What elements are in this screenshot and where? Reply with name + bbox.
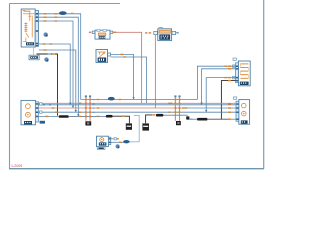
frame bottom border — [9, 168, 264, 170]
relay K1 right stub — [176, 32, 179, 33]
unit U1 bottom label — [26, 42, 34, 45]
pump unit P1 — [97, 136, 109, 146]
fuse box F1 (top middle) — [89, 30, 113, 40]
ground symbol GND2 — [142, 123, 149, 130]
wire W8 from switch — [111, 56, 147, 103]
ground G1 chain — [146, 114, 236, 123]
splice blob on W1 — [59, 11, 67, 15]
wire W3 (pin y=21) — [39, 20, 73, 108]
connector C1 label — [85, 121, 91, 125]
heater resistor unit R1 (right) — [238, 61, 250, 86]
wire W9 red from K1 down — [154, 35, 156, 108]
wire W2 (pin y=17.2) — [39, 17, 79, 117]
symbol circle S2 — [44, 57, 48, 61]
bus B3 with fuse chain to ground1 — [39, 115, 130, 123]
connector C2 label — [176, 121, 181, 125]
wire W4b (second lower pin wire y=50) — [39, 49, 76, 112]
motor unit connector bar — [233, 97, 238, 121]
symbol circle S3 — [116, 144, 120, 148]
unit M1 connector bar — [35, 102, 38, 122]
fuse lozenge F5 — [197, 118, 208, 121]
wire WB heater pin2 — [202, 68, 236, 105]
inline connector C1 — [85, 95, 95, 120]
motor unit M2 (right lower) — [239, 100, 250, 125]
wire W4 (pin y=43.5) — [39, 43, 71, 105]
inline connector C2 — [170, 95, 185, 120]
relay K1 (top centre) — [154, 27, 176, 41]
bus B0 top blue — [81, 99, 198, 101]
light blue pump feed wire — [111, 115, 139, 143]
unit M1 (left actuator) — [21, 100, 35, 124]
extra wire ticks near connectors — [79, 99, 187, 113]
frame left border — [9, 4, 11, 169]
wire W1 top (pin y=13.8) — [39, 13, 81, 100]
bus blue B1 — [39, 103, 236, 105]
fuse lozenge F2 — [59, 115, 69, 118]
unit U1 lower connector label box — [29, 47, 39, 60]
wire WA heater pin1 — [197, 66, 235, 100]
unit U1 box (top-left control unit) — [21, 9, 35, 47]
unit U1 internal label above — [24, 11, 31, 12]
heater connector bar — [233, 58, 238, 83]
frame right border — [263, 0, 265, 169]
pin speck boxes right of M1 bar — [40, 103, 42, 114]
switch box S4 (below F1) — [96, 50, 111, 63]
splice blob on pump wire — [123, 140, 129, 143]
bus red R2 — [39, 107, 236, 108]
wire W7 from switch — [111, 54, 134, 100]
pump lower label — [97, 147, 105, 150]
splice blob on B0 — [108, 97, 115, 101]
pump connector bar — [108, 137, 110, 144]
wire WC heater pin3 — [206, 77, 235, 112]
relay K1 left stub ticks — [145, 32, 151, 33]
svg-text:1-2005: 1-2005 — [11, 164, 22, 168]
heater pin number boxes — [233, 65, 236, 79]
symbol circle S1 — [44, 32, 48, 36]
junction blob dark — [186, 116, 189, 119]
frame top border — [10, 3, 121, 5]
wire WD heater pin4 black — [221, 80, 235, 119]
fuse lozenge F4 — [156, 114, 164, 117]
small label right of M1 bar bottom — [40, 121, 45, 124]
fuse lozenge F3 — [106, 115, 113, 118]
wire W5 black (from lower connector, y=54) — [37, 53, 58, 115]
unit U1 internal symbols — [23, 10, 35, 41]
junction arrowheads where drops meet buses — [69, 97, 207, 116]
bus red R1 — [39, 102, 236, 104]
ground symbol GND1 — [126, 123, 132, 129]
pump stub wire — [111, 138, 119, 140]
unit U1 connector bar — [35, 11, 38, 47]
wire W6 red from F1 — [113, 32, 142, 104]
bus blue B2 — [39, 112, 236, 113]
